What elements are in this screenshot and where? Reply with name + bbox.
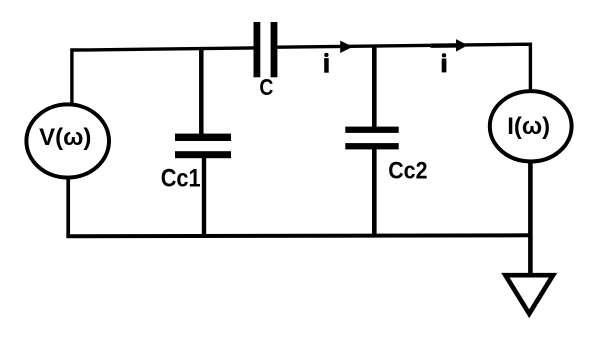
current arrow i (left) [340,41,353,53]
bottom wire [67,235,531,236]
svg-text:V(ω): V(ω) [39,124,91,151]
wire top-right segment with right vertical drop [277,44,530,90]
svg-text:Cc1: Cc1 [161,164,201,192]
wire Cc2 upper stub [372,47,377,130]
ground [505,275,553,314]
svg-text:C: C [259,74,273,100]
wire Cc1 lower stub [202,155,206,237]
wire below voltage source [66,179,70,238]
svg-text:I(ω): I(ω) [507,113,550,140]
capacitor Cc2 [345,127,398,150]
label i (right) [442,53,447,72]
wire Cc1 upper stub [199,48,204,136]
current source I(ω) [490,91,572,161]
voltage source V(ω) [26,104,109,177]
wire top-left segment with left vertical drop [72,48,254,104]
wire Cc2 lower stub [372,146,377,237]
capacitor Cc1 [175,134,231,159]
wire below current source to ground [528,161,533,273]
current arrow i (right) [431,39,468,52]
capacitor C [254,22,278,77]
label i (left) [324,53,329,73]
svg-text:Cc2: Cc2 [388,158,427,185]
